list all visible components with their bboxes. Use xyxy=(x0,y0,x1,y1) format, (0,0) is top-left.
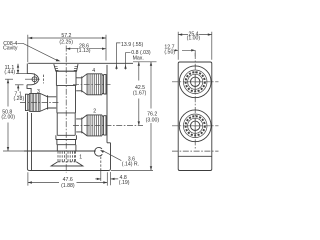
body bottom edge xyxy=(29,170,108,172)
svg-text:4: 4 xyxy=(92,68,95,74)
body left edge upper xyxy=(26,64,28,74)
body left edge mid xyxy=(27,85,31,94)
dim 76.2 (3.00) xyxy=(150,62,152,171)
bottom ext line for 76.2 xyxy=(111,170,153,172)
horizontal centerline lower xyxy=(172,150,219,152)
lower face line xyxy=(178,155,212,157)
svg-text:(.44): (.44) xyxy=(4,70,15,76)
top face line of body xyxy=(28,62,133,64)
port 2 centerline xyxy=(73,124,143,126)
dim 47.6 (1.88) xyxy=(28,172,107,185)
port A center cross xyxy=(188,75,203,90)
column lower section xyxy=(57,145,76,151)
column section 3 xyxy=(57,86,76,113)
body left edge lower xyxy=(27,112,29,171)
port B bore xyxy=(191,121,200,130)
cartridge centerline xyxy=(65,46,67,173)
svg-text:76.2: 76.2 xyxy=(147,111,157,117)
port A h-centerline xyxy=(172,81,219,83)
port 4 centerline xyxy=(73,83,111,85)
svg-text:3: 3 xyxy=(37,89,40,95)
hex thread ticks left xyxy=(55,66,59,70)
dim 25.4 (1.00) xyxy=(178,32,212,60)
svg-text:(1.88): (1.88) xyxy=(61,183,75,189)
mounting ear tab xyxy=(27,74,39,85)
vertical centerline xyxy=(194,53,196,149)
block outline xyxy=(178,62,212,171)
ear hole xyxy=(32,77,37,82)
groove extension line (4.8 dim left ext) xyxy=(100,171,102,181)
relief groove R3.6 xyxy=(95,147,103,156)
dim 28.6 (1.13) xyxy=(66,48,106,50)
port 1 fitting (bottom, hidden threads) xyxy=(51,151,83,166)
hidden edge below groove xyxy=(100,157,102,170)
dim 50.8 (2.00) xyxy=(7,79,9,151)
top reference extension line (thin, to vertical dims) xyxy=(133,61,157,63)
svg-text:(1.67): (1.67) xyxy=(133,91,147,97)
column section 5 xyxy=(57,140,76,145)
port A thread ring outer xyxy=(183,70,207,94)
port B center cross xyxy=(188,119,203,134)
svg-text:(.50): (.50) xyxy=(164,50,175,56)
port 3 centerline xyxy=(20,101,60,103)
port A bore xyxy=(191,77,200,86)
port B thread ring outer xyxy=(183,114,207,138)
svg-text:(.14) R.: (.14) R. xyxy=(122,161,139,167)
bottom mounting face line (port1 face) xyxy=(24,150,96,152)
inner left vertical edge xyxy=(31,113,33,170)
hex thread ticks right xyxy=(74,66,78,70)
port B thread dashes xyxy=(186,116,205,135)
port B counterbore outer circle xyxy=(179,110,211,142)
column section 4 xyxy=(57,113,75,135)
column section 2 xyxy=(56,71,77,85)
svg-text:(2.00): (2.00) xyxy=(1,115,15,121)
svg-text:(.28): (.28) xyxy=(14,96,25,102)
svg-text:(.19): (.19) xyxy=(119,180,130,186)
svg-text:(1.00): (1.00) xyxy=(187,36,201,42)
svg-text:57.2: 57.2 xyxy=(61,33,71,39)
svg-text:13.9 (.55): 13.9 (.55) xyxy=(121,42,143,48)
port 4 fitting xyxy=(76,74,106,95)
port B thread ring inner xyxy=(188,118,203,133)
dim 4.8 (.19) xyxy=(110,172,112,185)
port A thread ring inner xyxy=(188,74,203,89)
svg-text:Cavity: Cavity xyxy=(3,46,18,52)
dim 57.2 (2.25) xyxy=(28,35,106,63)
port A counterbore outer circle xyxy=(179,66,211,98)
port B h-centerline xyxy=(172,125,219,127)
port A thread dashes xyxy=(186,72,205,91)
ear hole h-centerline xyxy=(25,78,40,80)
svg-text:(3.00): (3.00) xyxy=(146,118,160,124)
svg-text:1: 1 xyxy=(79,154,82,160)
dim 7.1 (.28) xyxy=(15,84,24,86)
svg-text:2: 2 xyxy=(93,109,96,115)
ear hole v-centerline xyxy=(34,73,36,84)
port 2 fitting xyxy=(76,115,106,136)
port 3 fitting (left) xyxy=(26,93,57,111)
ear hole centerline ext left xyxy=(5,78,13,80)
50.8 ext line xyxy=(3,150,24,152)
hidden boss edge near ear xyxy=(42,75,44,84)
cartridge hex head xyxy=(54,64,78,71)
body right edge lower xyxy=(109,143,111,171)
svg-text:(1.13): (1.13) xyxy=(77,48,91,54)
svg-text:(2.25): (2.25) xyxy=(59,39,73,45)
dim 42.5 (1.67) xyxy=(138,62,140,126)
column ring nut xyxy=(56,135,77,139)
svg-text:Max.: Max. xyxy=(133,55,144,61)
right step xyxy=(107,142,111,144)
body right edge upper xyxy=(106,65,108,143)
